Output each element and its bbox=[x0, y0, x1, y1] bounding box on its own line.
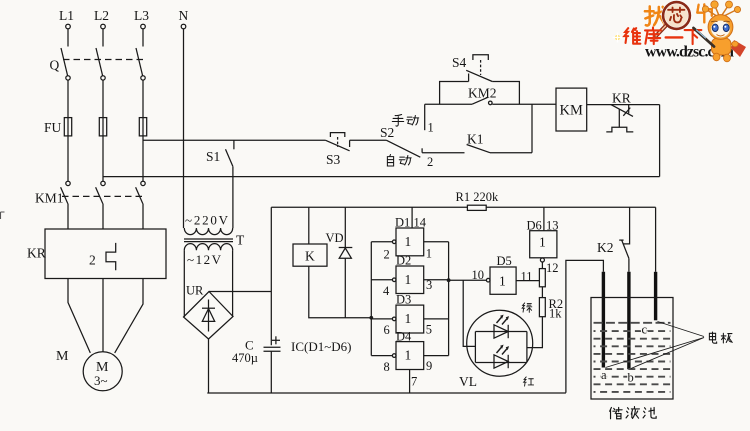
svg-text:D3: D3 bbox=[396, 293, 411, 307]
svg-text:9: 9 bbox=[426, 359, 432, 373]
D6 output bubble pin 12 bbox=[540, 258, 558, 275]
svg-text:1k: 1k bbox=[549, 307, 562, 321]
svg-text:7: 7 bbox=[411, 374, 417, 388]
wire KR return drop bbox=[659, 105, 661, 177]
LED red bbox=[494, 345, 509, 369]
wire L1 Q-to-FU bbox=[67, 80, 69, 118]
wire L2 FU-to-KM1 (tap of wire B at y=176.6) bbox=[102, 136, 104, 181]
gate D3 bbox=[392, 293, 423, 333]
motor lead 2 bbox=[102, 279, 104, 353]
switch Q pole 2 bbox=[96, 48, 105, 80]
wire L3 KM1-to-KR bbox=[142, 204, 144, 229]
leader lines to 电极 bbox=[606, 322, 705, 369]
wire secondary left drop bbox=[183, 250, 185, 317]
wire top rail to electrode c bbox=[655, 207, 657, 271]
transformer T primary winding ~220V bbox=[184, 213, 232, 235]
svg-text:3: 3 bbox=[426, 278, 432, 292]
top rail after R1 bbox=[486, 206, 655, 208]
contactor KM1 pole 3 bbox=[136, 181, 146, 203]
gate D6 bbox=[527, 218, 559, 257]
coil KM bbox=[556, 88, 587, 131]
LED green bbox=[494, 315, 509, 339]
wire D5 out pin 11 bbox=[516, 269, 539, 283]
wire S3 to S2 bbox=[350, 139, 387, 141]
thermal contact KR (NC) bbox=[606, 90, 633, 132]
fuse FU3 bbox=[139, 118, 146, 136]
gate D2 bbox=[392, 254, 423, 294]
svg-text:6: 6 bbox=[384, 323, 390, 337]
S4 actuator bbox=[452, 55, 488, 75]
tank 储液池 bbox=[591, 298, 673, 400]
output rail and stubs bbox=[424, 242, 449, 356]
svg-text:470µ: 470µ bbox=[232, 351, 258, 365]
svg-text:KM1: KM1 bbox=[35, 191, 64, 206]
selector S2 blade bbox=[380, 125, 420, 157]
gate D5 bbox=[486, 254, 516, 294]
transformer core bbox=[184, 233, 245, 248]
watermark mascot bbox=[694, 1, 747, 62]
terminal N bbox=[179, 8, 189, 29]
watermark 找 (orange) bbox=[645, 6, 665, 25]
junction vertical K1-to-KM2 wire bbox=[531, 104, 533, 153]
svg-text:S2: S2 bbox=[380, 125, 394, 140]
wire N vertical to transformer bbox=[183, 29, 185, 228]
wire L3 Q-to-FU bbox=[142, 80, 144, 118]
electrode c bbox=[654, 272, 657, 321]
svg-text:1: 1 bbox=[405, 311, 412, 326]
svg-text:1: 1 bbox=[405, 272, 412, 287]
wire A: L3 control feed to S3/S2 bbox=[143, 139, 326, 141]
wire L3 drop to Q bbox=[142, 29, 144, 47]
terminal L2 bbox=[94, 8, 109, 29]
svg-text:KR: KR bbox=[612, 90, 631, 105]
water dashes bbox=[594, 323, 671, 392]
pin labels 2 4 6 8 bbox=[383, 248, 390, 374]
svg-text:10: 10 bbox=[472, 268, 485, 282]
svg-text:IC(D1~D6): IC(D1~D6) bbox=[291, 339, 351, 354]
KM1 linkage dashed bbox=[62, 195, 146, 197]
bottom ground rail bbox=[207, 392, 566, 394]
motor M 3~ bbox=[83, 352, 122, 391]
fuse FU2 bbox=[99, 118, 106, 136]
gate D4 bbox=[392, 329, 423, 369]
relay contact K1 bbox=[467, 131, 532, 152]
label 储液池 (reservoir) bbox=[610, 407, 656, 419]
resistor R2 1k bbox=[539, 297, 563, 321]
svg-text:c: c bbox=[642, 323, 648, 337]
electrode labels a b c bbox=[601, 323, 648, 385]
svg-text:14: 14 bbox=[414, 215, 427, 229]
svg-text:1: 1 bbox=[405, 348, 412, 363]
input rail and stubs bbox=[371, 242, 392, 356]
svg-text:D5: D5 bbox=[497, 254, 512, 268]
svg-text:L1: L1 bbox=[59, 8, 74, 23]
watermark 片 (orange) bbox=[697, 4, 712, 22]
svg-text:D2: D2 bbox=[396, 254, 411, 268]
svg-text:8: 8 bbox=[384, 360, 390, 374]
fuse FU1 bbox=[64, 118, 71, 136]
svg-text:FU: FU bbox=[44, 120, 62, 135]
svg-text:4: 4 bbox=[383, 284, 390, 298]
capacitor C 470u bbox=[232, 336, 281, 393]
wire UR+ to left rail bbox=[209, 291, 271, 293]
resistor (upper) bbox=[539, 269, 545, 287]
svg-text:S1: S1 bbox=[206, 149, 220, 164]
electrode b bbox=[627, 272, 630, 370]
wire R2 to VL right bbox=[527, 317, 543, 348]
wire node10 to D5 bbox=[449, 268, 487, 282]
svg-text:M: M bbox=[56, 349, 69, 364]
svg-text:K2: K2 bbox=[597, 240, 614, 255]
wire L1 KM1-to-KR bbox=[67, 204, 69, 229]
svg-text:1: 1 bbox=[405, 234, 412, 249]
wire KM to KR contact bbox=[587, 104, 660, 106]
KR heater element and label 2 bbox=[89, 243, 116, 270]
svg-text:D1: D1 bbox=[395, 215, 410, 229]
pin labels 1 3 5 9 7 bbox=[411, 247, 432, 389]
svg-text:1: 1 bbox=[539, 235, 546, 250]
watermark starburst bbox=[613, 33, 623, 43]
label 电极 (electrodes) bbox=[709, 332, 732, 343]
top DC rail bbox=[271, 206, 467, 208]
svg-text:~220V: ~220V bbox=[185, 213, 229, 228]
S2 contact 2 bbox=[422, 148, 464, 169]
thermal relay KR box bbox=[27, 229, 166, 279]
svg-text:S4: S4 bbox=[452, 55, 467, 70]
svg-text:R1 220k: R1 220k bbox=[456, 190, 499, 204]
wire S1 to transformer primary bbox=[232, 166, 234, 228]
wire UR bottom to ground rail bbox=[208, 339, 210, 393]
pin 7 wire bbox=[409, 370, 411, 394]
junction dot input rail bbox=[369, 316, 373, 320]
label 自动 (auto) bbox=[387, 155, 411, 166]
wire L1 drop to Q bbox=[67, 29, 69, 47]
pin 14 wire bbox=[411, 207, 413, 228]
svg-text:1: 1 bbox=[499, 274, 506, 289]
gate D1 bbox=[392, 215, 426, 256]
wire C: manual branch bbox=[425, 103, 472, 105]
contactor KM1 pole 1 bbox=[61, 181, 71, 203]
svg-text:K1: K1 bbox=[467, 131, 484, 146]
resistor R1 220k bbox=[456, 190, 499, 210]
wire L1 FU-to-KM1 bbox=[67, 136, 69, 181]
wire L2 KM1-to-KR bbox=[102, 204, 104, 229]
pushbutton S4 branch bbox=[440, 70, 520, 104]
switch Q pole 1 bbox=[61, 48, 70, 80]
watermark magnifier ring over 芯 bbox=[655, 2, 690, 37]
wire L2 Q-to-FU bbox=[102, 80, 104, 118]
bridge rectifier UR bbox=[184, 284, 234, 340]
svg-text:2: 2 bbox=[384, 248, 390, 262]
left DC rail bbox=[270, 207, 272, 345]
wire L2 drop to Q bbox=[102, 29, 104, 47]
motor lead 3 bbox=[115, 279, 143, 353]
svg-text:VD: VD bbox=[326, 231, 344, 245]
relay coil K bbox=[293, 207, 371, 317]
svg-text:D4: D4 bbox=[396, 329, 412, 343]
svg-text:5: 5 bbox=[426, 323, 432, 337]
wire B: L2 control return bbox=[103, 176, 660, 178]
Q linkage dashed bbox=[63, 59, 146, 61]
wire node10 branch to VL bbox=[463, 280, 475, 346]
svg-text:12: 12 bbox=[546, 261, 559, 275]
wire between resistors bbox=[541, 287, 543, 298]
motor lead 1 bbox=[68, 279, 90, 353]
wire electrode a to ground bbox=[566, 260, 604, 392]
svg-text:T: T bbox=[236, 233, 245, 248]
svg-text:D6: D6 bbox=[527, 218, 542, 232]
switch Q pole 3 bbox=[136, 48, 145, 80]
svg-text:VL: VL bbox=[459, 374, 477, 389]
svg-text:L2: L2 bbox=[94, 8, 109, 23]
svg-text:13: 13 bbox=[546, 218, 559, 232]
electrode a bbox=[602, 272, 605, 368]
svg-text:2: 2 bbox=[89, 253, 96, 268]
S2 contact 1 bbox=[425, 104, 434, 134]
svg-text:K: K bbox=[305, 249, 315, 264]
contactor KM1 pole 2 bbox=[96, 181, 106, 203]
svg-text:a: a bbox=[601, 368, 607, 382]
pushbutton S3 (NC) bbox=[326, 133, 350, 167]
svg-text:L3: L3 bbox=[134, 8, 149, 23]
svg-text:S3: S3 bbox=[326, 152, 341, 167]
svg-text:KM: KM bbox=[560, 103, 583, 119]
VL parallel branch frame bbox=[475, 332, 527, 363]
svg-text:1: 1 bbox=[426, 247, 432, 261]
watermark 维库一下 (red) bbox=[624, 27, 701, 44]
scan artifact left edge bbox=[1, 212, 5, 219]
terminal L1 bbox=[59, 8, 74, 29]
junction dot output rail bbox=[447, 278, 451, 282]
wire L3 FU-to-KM1 (tap of wire A at y=140.3) bbox=[142, 136, 144, 181]
pin 13 wire bbox=[543, 207, 545, 230]
label 手动 (manual) bbox=[392, 115, 418, 127]
wire secondary right drop bbox=[232, 250, 234, 316]
label 绿 (green) bbox=[522, 303, 532, 312]
wire KM2 to KM coil bbox=[492, 103, 556, 105]
svg-text:11: 11 bbox=[521, 269, 533, 283]
svg-text:Q: Q bbox=[50, 58, 60, 73]
svg-text:KR: KR bbox=[27, 246, 46, 261]
switch S1 bbox=[206, 140, 234, 166]
svg-text:N: N bbox=[179, 8, 189, 23]
svg-text:2: 2 bbox=[427, 155, 433, 169]
label 红 (red) bbox=[524, 377, 534, 386]
diode VD bbox=[326, 207, 353, 317]
switch K2 bbox=[597, 207, 630, 271]
contactor aux contact KM2 bbox=[468, 86, 497, 105]
terminal L3 bbox=[134, 8, 149, 29]
svg-text:1: 1 bbox=[428, 121, 434, 135]
svg-text:b: b bbox=[628, 371, 634, 385]
svg-text:KM2: KM2 bbox=[468, 86, 497, 101]
indicator VL circle bbox=[467, 310, 533, 376]
svg-text:3~: 3~ bbox=[94, 373, 108, 388]
svg-text:~12V: ~12V bbox=[187, 252, 222, 267]
transformer secondary winding ~12V bbox=[184, 244, 232, 267]
svg-text:UR: UR bbox=[186, 284, 204, 298]
